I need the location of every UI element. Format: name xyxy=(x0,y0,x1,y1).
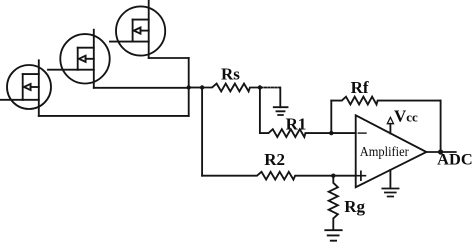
svg-text:Amplifier: Amplifier xyxy=(360,145,409,160)
wire M3 gate lead xyxy=(110,41,133,43)
wire node B drop to R2 row xyxy=(201,88,203,176)
svg-text:Vcc: Vcc xyxy=(394,106,418,125)
Vcc arrowhead (open) xyxy=(387,117,393,123)
transistor M3 body arrowhead xyxy=(134,28,141,34)
svg-text:R2: R2 xyxy=(264,150,285,169)
transistor M3 gate bar xyxy=(132,20,134,42)
wire source rail vertical xyxy=(188,58,190,116)
ground stem (op-amp) xyxy=(389,170,391,188)
node output junction dot xyxy=(438,149,443,154)
wire output lead xyxy=(426,151,455,153)
node A junction dot xyxy=(187,85,191,89)
transistor M1 gate bar xyxy=(22,74,24,100)
svg-text:R1: R1 xyxy=(286,115,307,134)
op-amp U1 triangle xyxy=(356,115,427,187)
transistor M1 body arrowhead xyxy=(24,84,31,90)
resistor R2 xyxy=(202,172,356,180)
wire node A to node B xyxy=(189,87,202,89)
transistor M3 body arrow line xyxy=(140,30,148,32)
wire M1 source to rail xyxy=(39,115,189,117)
transistor M2 top prong xyxy=(78,47,94,49)
wire M2 gate lead xyxy=(48,69,78,71)
wire M3 source to rail xyxy=(149,57,189,59)
ground (Rg) xyxy=(325,230,341,241)
svg-text:Rg: Rg xyxy=(344,197,365,216)
op-amp minus sign xyxy=(358,132,366,134)
transistor M2 body arrowhead xyxy=(79,56,86,62)
node minus-input junction dot xyxy=(329,131,333,135)
transistor M3 channel line (drain to top edge) xyxy=(148,0,150,58)
ground (op-amp) xyxy=(382,189,398,197)
wire dotted parasitic to ground xyxy=(262,87,281,89)
transistor M2 body arrow line xyxy=(86,58,94,60)
transistor M1 body arrow line xyxy=(31,86,39,88)
wire feedback riser xyxy=(330,101,332,134)
transistor M1 top prong (drain contact) xyxy=(23,73,39,75)
resistor Rf xyxy=(331,97,440,105)
Vcc stem xyxy=(389,124,391,134)
wire M2 source to node A xyxy=(94,87,189,89)
transistor M2 gate bar xyxy=(77,48,79,70)
wire feedback down to output xyxy=(440,101,442,152)
transistor M3 top prong xyxy=(133,19,149,21)
transistor M2 bottom prong xyxy=(78,69,94,71)
transistor M1 bottom prong (source contact) xyxy=(23,99,39,101)
transistor M2 circle xyxy=(60,34,109,83)
node C junction dot xyxy=(258,85,262,89)
transistor M3 circle xyxy=(116,6,165,55)
svg-text:ADC: ADC xyxy=(437,152,473,169)
wire parasitic ground stem xyxy=(279,88,281,108)
wire M1 gate lead xyxy=(0,99,23,101)
ground (parasitic, small) xyxy=(274,107,288,115)
transistor M2 channel line xyxy=(93,30,95,88)
svg-text:Rf: Rf xyxy=(351,78,369,97)
wire node C drop to R1 row xyxy=(259,88,261,134)
svg-text:Rs: Rs xyxy=(221,65,240,84)
resistor Rg (vertical) xyxy=(329,176,338,230)
transistor M1 channel line xyxy=(38,60,40,116)
node B junction dot xyxy=(200,85,204,89)
node plus-input junction dot xyxy=(331,174,335,178)
op-amp plus sign xyxy=(357,171,366,180)
resistor R1 xyxy=(260,129,356,137)
transistor M1 circle xyxy=(7,65,51,109)
transistor M3 bottom prong xyxy=(133,41,149,43)
resistor Rs xyxy=(202,84,260,92)
